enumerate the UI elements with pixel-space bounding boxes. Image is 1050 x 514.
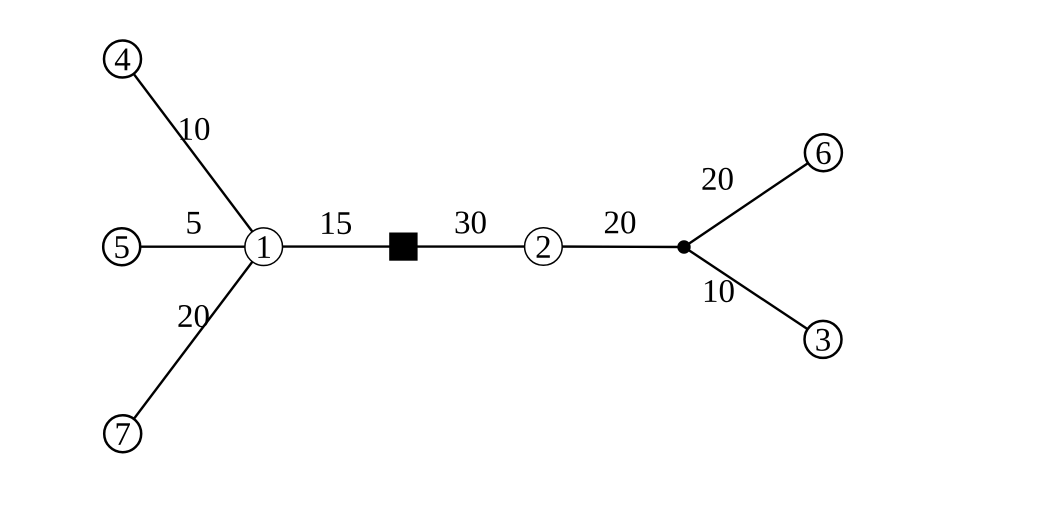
label 20 on edge 2-junction bbox=[605, 211, 635, 233]
label 5 on edge 5-1 bbox=[187, 212, 200, 234]
wire edge junction-6 bbox=[684, 153, 823, 247]
label 20 on edge 7-1 bbox=[178, 305, 208, 327]
label 20 on edge junction-6 bbox=[702, 168, 732, 190]
wire edge 1-square bbox=[264, 245, 404, 247]
wire edge 5-1 bbox=[122, 245, 264, 247]
wire edge 4-1 bbox=[123, 59, 264, 247]
node 4 bbox=[104, 41, 141, 78]
wire edge junction-3 bbox=[684, 247, 823, 339]
node 7 bbox=[104, 415, 141, 452]
wire edge 2-junction bbox=[543, 245, 684, 248]
wire edge square-2 bbox=[403, 245, 543, 248]
label 10 on edge junction-3 bbox=[705, 280, 734, 302]
node 2 bbox=[525, 228, 563, 266]
node 6 bbox=[805, 134, 842, 171]
label 10 on edge 4-1 bbox=[180, 118, 209, 140]
label 30 on edge square-2 bbox=[456, 211, 486, 233]
junction dot node bbox=[677, 240, 690, 253]
square terminal node bbox=[389, 233, 417, 261]
node 5 bbox=[103, 228, 140, 265]
node 1 bbox=[245, 228, 283, 266]
wire edge 7-1 bbox=[123, 247, 264, 434]
node 3 bbox=[805, 321, 842, 358]
label 15 on edge 1-square bbox=[322, 212, 351, 234]
